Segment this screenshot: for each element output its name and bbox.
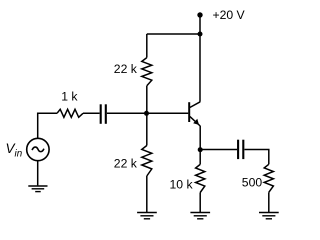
wire: top horizontal to divider bbox=[147, 33, 200, 35]
resistor R1 22 k (upper divider) bbox=[142, 58, 152, 86]
wire: R4 bottom to ground bbox=[199, 193, 201, 213]
svg-text:10 k: 10 k bbox=[170, 178, 194, 192]
svg-text:Vin: Vin bbox=[6, 141, 23, 160]
wire: R1 bottom to base node to R2 top bbox=[146, 86, 148, 146]
svg-text:22 k: 22 k bbox=[114, 62, 138, 76]
resistor R5 500 (load) bbox=[264, 164, 273, 192]
wire: C1 to transistor base (through base node) bbox=[107, 112, 188, 114]
ground: under R5 bbox=[259, 213, 279, 219]
transistor Q1 (NPN) bbox=[189, 102, 200, 126]
wire: C2 right lead and down to R5 bbox=[245, 150, 269, 165]
voltage source Vin (AC) bbox=[27, 138, 49, 160]
ground: under Vin bbox=[28, 186, 47, 192]
svg-text:22 k: 22 k bbox=[114, 156, 138, 170]
resistor R3 1 k (input series) bbox=[57, 109, 83, 117]
resistor R2 22 k (lower divider) bbox=[142, 146, 152, 177]
wire: +20V rail vertical (collector feed) bbox=[199, 15, 201, 102]
wire: emitter vertical down through node to R4 bbox=[199, 126, 201, 165]
resistor R4 10 k (emitter) bbox=[196, 164, 205, 192]
capacitor C1 (input coupling) bbox=[101, 104, 106, 124]
wire: emitter node horizontal to capacitor C2 bbox=[200, 149, 237, 151]
node: base junction dot bbox=[144, 111, 149, 116]
capacitor C2 (output coupling) bbox=[238, 140, 243, 159]
wire: R2 bottom to ground bbox=[146, 176, 148, 212]
node: +20V terminal dot bbox=[197, 12, 202, 17]
node: emitter junction dot bbox=[198, 147, 203, 152]
wire: Vin top lead up and right bbox=[38, 113, 57, 138]
ground: under R4 bbox=[190, 213, 210, 219]
wire: Vin bottom lead to ground bbox=[37, 161, 39, 186]
ground: under R2 bbox=[137, 213, 157, 219]
svg-text:500: 500 bbox=[242, 176, 263, 190]
svg-text:+20 V: +20 V bbox=[213, 8, 246, 22]
wire: R5 bottom to ground bbox=[268, 192, 270, 212]
wire: R3 to capacitor C1 bbox=[83, 112, 100, 114]
svg-text:1 k: 1 k bbox=[61, 90, 78, 104]
node: rail junction dot bbox=[198, 32, 203, 37]
wire: divider top vertical bbox=[146, 34, 148, 58]
